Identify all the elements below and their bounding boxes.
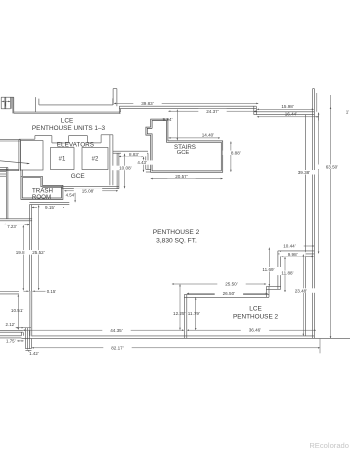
svg-text:0.15’: 0.15’	[47, 289, 57, 294]
svg-text:1’: 1’	[346, 110, 350, 115]
svg-text:44.35’: 44.35’	[110, 328, 123, 333]
svg-text:82.17’: 82.17’	[111, 345, 124, 350]
svg-text:63.50’: 63.50’	[326, 164, 339, 169]
svg-text:20.57’: 20.57’	[175, 174, 188, 179]
svg-text:4.43’: 4.43’	[137, 160, 147, 165]
svg-text:15.98’: 15.98’	[281, 104, 294, 109]
svg-text:2.12’: 2.12’	[6, 322, 16, 327]
svg-text:7.23’: 7.23’	[7, 224, 17, 229]
svg-text:8.83’: 8.83’	[129, 152, 139, 157]
svg-text:9.98’: 9.98’	[288, 252, 298, 257]
svg-text:4.54’: 4.54’	[66, 193, 76, 198]
svg-text:39.83’: 39.83’	[141, 101, 154, 106]
svg-text:GCE: GCE	[71, 173, 85, 180]
svg-text:PENTHOUSE UNITS 1–3: PENTHOUSE UNITS 1–3	[32, 125, 106, 132]
svg-text:#2: #2	[92, 156, 99, 162]
svg-text:PENTHOUSE 2: PENTHOUSE 2	[153, 229, 200, 236]
svg-text:PENTHOUSE 2: PENTHOUSE 2	[233, 313, 279, 320]
svg-text:1.42’: 1.42’	[29, 351, 39, 356]
svg-text:36.46’: 36.46’	[249, 328, 262, 333]
svg-text:11.88’: 11.88’	[281, 271, 293, 276]
svg-text:9.15’: 9.15’	[45, 205, 55, 210]
svg-text:#1: #1	[59, 156, 66, 162]
svg-text:14.40’: 14.40’	[202, 133, 215, 138]
svg-text:10.44’: 10.44’	[283, 244, 296, 249]
svg-text:GCE: GCE	[177, 150, 190, 156]
svg-text:11.69’: 11.69’	[262, 267, 274, 272]
svg-text:REcolorado: REcolorado	[309, 441, 349, 450]
svg-text:25.50’: 25.50’	[225, 281, 238, 286]
svg-text:3,830 SQ. FT.: 3,830 SQ. FT.	[156, 238, 197, 245]
svg-text:23.48’: 23.48’	[295, 288, 308, 293]
svg-text:10.51’: 10.51’	[11, 308, 24, 313]
svg-text:16.44’: 16.44’	[285, 112, 298, 117]
svg-text:24.37’: 24.37’	[206, 109, 219, 114]
svg-text:LCE: LCE	[61, 117, 73, 124]
svg-text:11.79’: 11.79’	[188, 311, 200, 316]
svg-text:9.94’: 9.94’	[163, 117, 173, 122]
svg-text:10.08’: 10.08’	[119, 166, 132, 171]
svg-text:ROOM: ROOM	[32, 194, 51, 201]
svg-text:LCE: LCE	[249, 306, 261, 313]
svg-text:15.08’: 15.08’	[82, 188, 95, 193]
svg-text:1.75’: 1.75’	[6, 339, 16, 344]
svg-text:39.38’: 39.38’	[298, 170, 311, 175]
svg-text:26.50’: 26.50’	[223, 291, 236, 296]
svg-text:12.25’: 12.25’	[173, 311, 186, 316]
svg-text:25.52’: 25.52’	[32, 250, 45, 255]
svg-text:8.88’: 8.88’	[231, 150, 241, 155]
